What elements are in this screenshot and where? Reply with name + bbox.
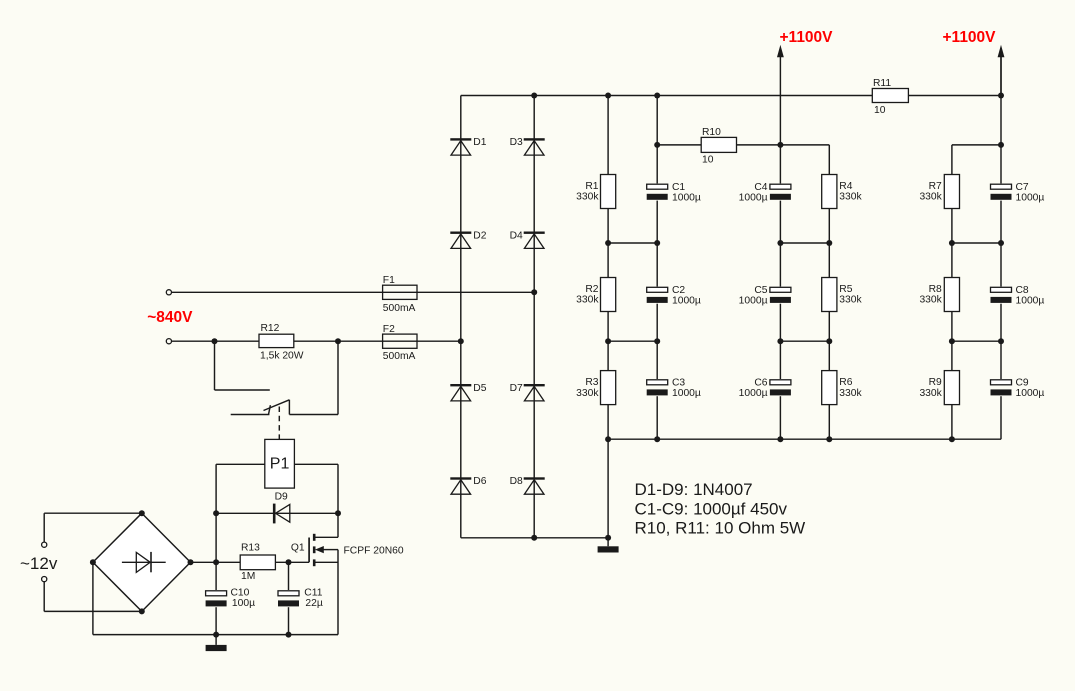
svg-text:~840V: ~840V (147, 309, 193, 326)
svg-text:R4: R4 (839, 181, 852, 192)
svg-text:330k: 330k (576, 295, 599, 306)
svg-text:C8: C8 (1016, 285, 1029, 296)
svg-text:R10: R10 (702, 127, 721, 138)
svg-text:330k: 330k (919, 192, 942, 203)
svg-text:D1: D1 (473, 137, 486, 148)
svg-text:1000µ: 1000µ (739, 388, 768, 399)
svg-text:500mA: 500mA (383, 351, 416, 362)
svg-text:C1-C9: 1000µf 450v: C1-C9: 1000µf 450v (635, 499, 788, 518)
svg-text:D4: D4 (510, 230, 523, 241)
svg-text:330k: 330k (839, 295, 862, 306)
svg-text:500mA: 500mA (383, 303, 416, 314)
svg-text:1000µ: 1000µ (1016, 388, 1045, 399)
svg-text:P1: P1 (270, 456, 290, 473)
svg-text:C10: C10 (231, 588, 250, 599)
svg-text:330k: 330k (919, 388, 942, 399)
svg-text:1000µ: 1000µ (672, 193, 701, 204)
svg-text:D9: D9 (275, 492, 288, 503)
svg-text:+1100V: +1100V (780, 29, 834, 46)
svg-text:330k: 330k (919, 295, 942, 306)
svg-text:F1: F1 (383, 275, 395, 286)
svg-text:R10, R11: 10 Ohm 5W: R10, R11: 10 Ohm 5W (635, 519, 806, 538)
svg-text:C3: C3 (672, 378, 685, 389)
svg-text:1000µ: 1000µ (739, 296, 768, 307)
svg-text:1000µ: 1000µ (739, 193, 768, 204)
svg-text:1000µ: 1000µ (1016, 296, 1045, 307)
svg-text:D8: D8 (510, 476, 523, 487)
svg-text:R1: R1 (585, 181, 598, 192)
svg-text:R5: R5 (839, 284, 852, 295)
svg-text:D1-D9: 1N4007: D1-D9: 1N4007 (635, 480, 753, 499)
svg-text:~12v: ~12v (20, 554, 58, 573)
svg-text:D3: D3 (510, 137, 523, 148)
svg-text:D5: D5 (473, 383, 486, 394)
svg-text:R13: R13 (241, 542, 260, 553)
svg-text:1M: 1M (241, 571, 255, 582)
svg-text:330k: 330k (576, 388, 599, 399)
svg-text:1000µ: 1000µ (672, 296, 701, 307)
svg-text:+1100V: +1100V (943, 29, 997, 46)
svg-text:330k: 330k (839, 192, 862, 203)
svg-text:FCPF 20N60: FCPF 20N60 (344, 546, 404, 557)
svg-text:D2: D2 (473, 230, 486, 241)
svg-text:10: 10 (702, 154, 714, 165)
svg-text:D7: D7 (510, 383, 523, 394)
svg-text:C1: C1 (672, 182, 685, 193)
svg-text:R2: R2 (585, 284, 598, 295)
svg-text:330k: 330k (839, 388, 862, 399)
svg-text:10: 10 (874, 105, 886, 116)
svg-text:C5: C5 (754, 285, 767, 296)
svg-text:R8: R8 (929, 284, 942, 295)
svg-text:1000µ: 1000µ (1016, 193, 1045, 204)
svg-text:1000µ: 1000µ (672, 388, 701, 399)
svg-text:C4: C4 (754, 182, 767, 193)
svg-text:330k: 330k (576, 192, 599, 203)
svg-text:F2: F2 (383, 324, 395, 335)
svg-text:R12: R12 (261, 323, 280, 334)
svg-text:Q1: Q1 (291, 542, 305, 553)
svg-text:R11: R11 (873, 78, 891, 89)
svg-text:100µ: 100µ (232, 598, 255, 609)
svg-text:D6: D6 (473, 476, 486, 487)
svg-text:C6: C6 (754, 378, 767, 389)
svg-text:R7: R7 (929, 181, 942, 192)
svg-text:C7: C7 (1016, 182, 1029, 193)
svg-text:C2: C2 (672, 285, 685, 296)
svg-text:R3: R3 (585, 377, 598, 388)
svg-text:C11: C11 (304, 588, 322, 599)
svg-text:R9: R9 (929, 377, 942, 388)
svg-text:R6: R6 (839, 377, 852, 388)
svg-text:C9: C9 (1016, 378, 1029, 389)
svg-text:1,5k 20W: 1,5k 20W (260, 351, 304, 362)
svg-text:22µ: 22µ (305, 598, 322, 609)
